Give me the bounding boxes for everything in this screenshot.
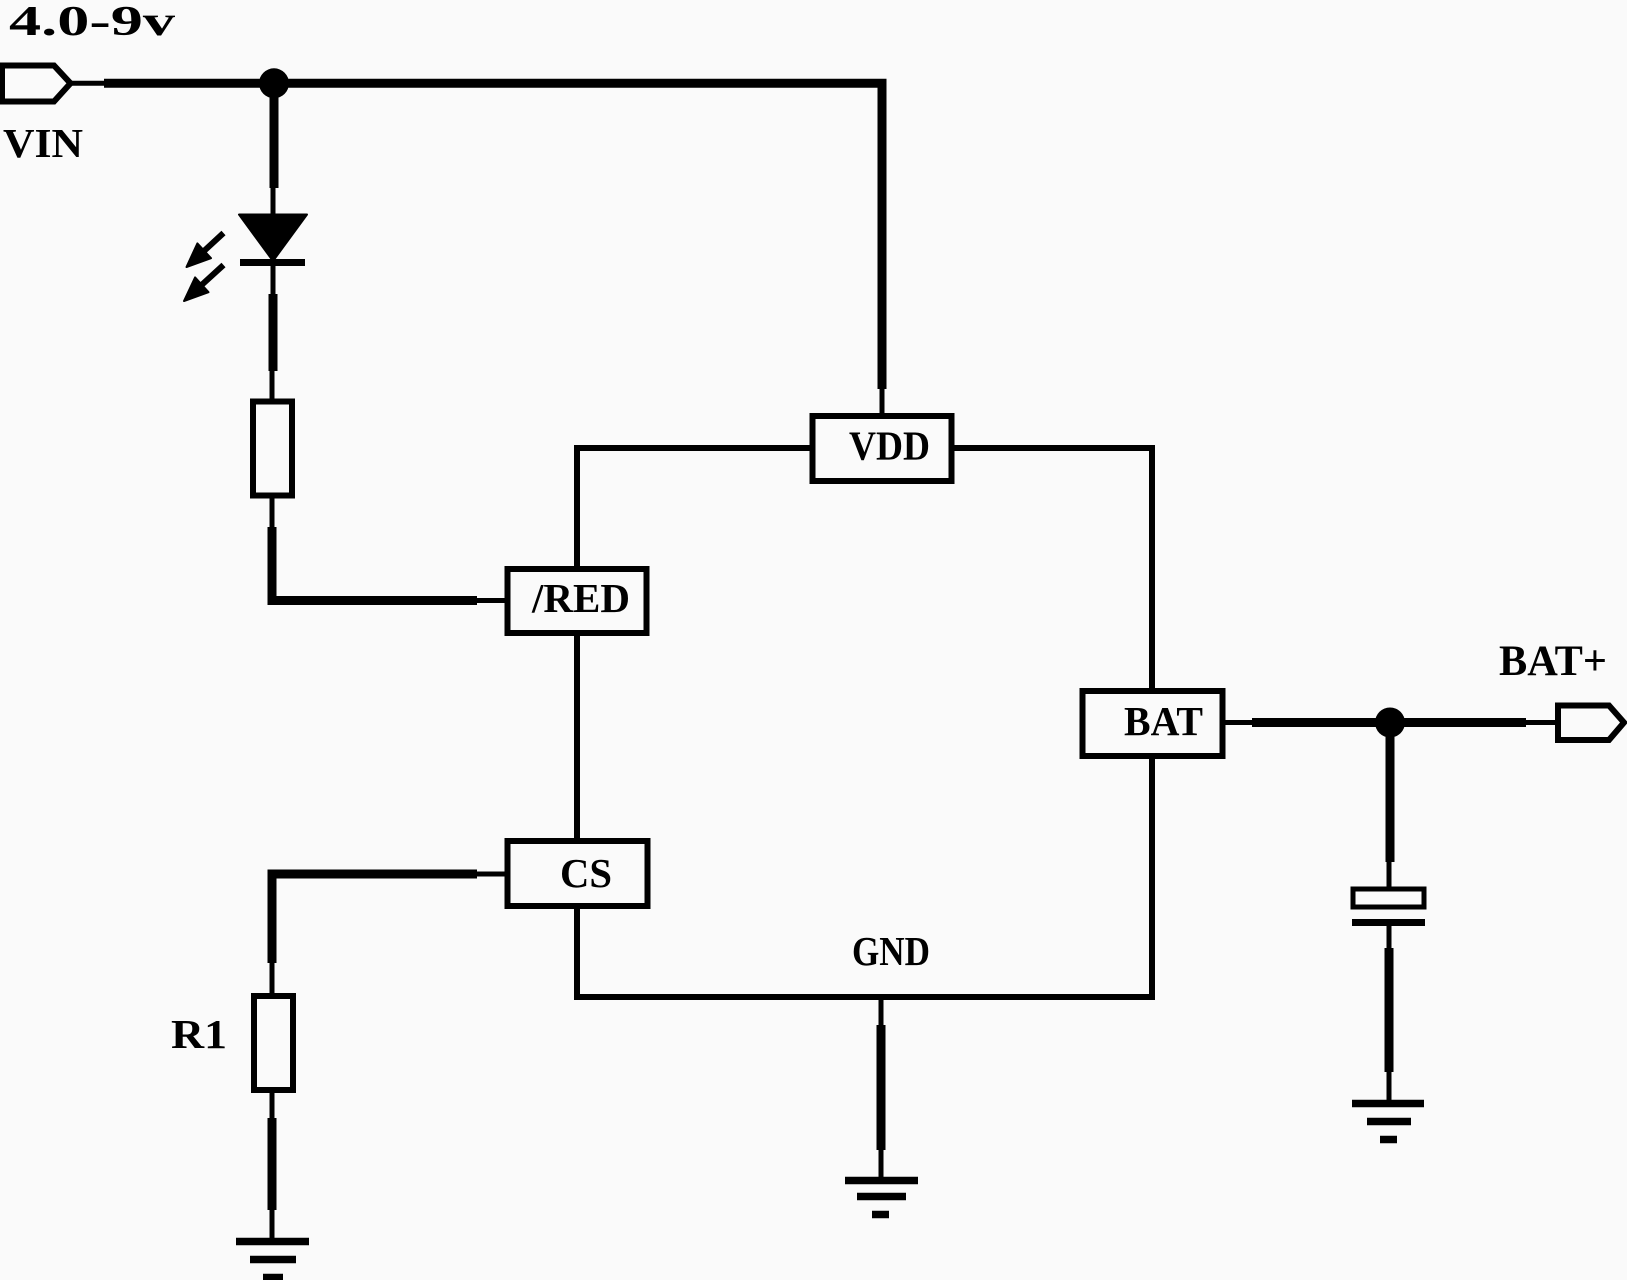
pin box BAT	[1083, 691, 1223, 756]
wire R1 to ground	[268, 1118, 277, 1210]
junction node at BAT net	[1375, 708, 1405, 738]
capacitor top pin stub	[1387, 862, 1392, 889]
ground symbol (GND pin)	[845, 1181, 918, 1215]
resistor R1 body	[254, 996, 293, 1090]
ground pin stub (GND net)	[879, 1150, 884, 1180]
ground symbol (R1)	[236, 1242, 309, 1278]
ground pin stub below R1	[270, 1210, 275, 1241]
R1 bottom pin stub	[270, 1088, 275, 1118]
LED D1 triangle	[239, 215, 307, 262]
wire junction down to capacitor	[1386, 723, 1395, 863]
ground symbol (capacitor)	[1352, 1104, 1424, 1140]
GND pin stub below IC	[879, 997, 884, 1025]
IC U1 body outline	[577, 448, 1152, 997]
wire GND to ground	[877, 1025, 886, 1150]
resistor top pin stub	[270, 371, 275, 403]
resistor bottom pin stub	[270, 494, 275, 527]
wire CS to R1	[272, 874, 477, 963]
capacitor C1 bottom plate	[1352, 919, 1425, 926]
pin stub into /RED box	[477, 598, 508, 603]
wire BAT to terminal	[1252, 718, 1526, 727]
LED anode pin stub	[271, 188, 276, 215]
wire VIN rail to VDD drop	[104, 83, 882, 389]
R1 top pin stub	[270, 963, 275, 997]
LED light arrow 2	[184, 265, 224, 301]
resistor (LED series) body	[253, 402, 292, 496]
svg-text:GND: GND	[852, 928, 930, 974]
pin stub out of CS box	[477, 872, 508, 877]
pin box /RED	[508, 569, 647, 633]
wire junction down to LED anode	[270, 83, 279, 188]
junction node at VIN rail	[259, 68, 289, 98]
wire capacitor to ground	[1385, 948, 1394, 1072]
svg-text:/RED: /RED	[531, 575, 630, 621]
LED D1 cathode bar	[240, 259, 305, 266]
pin stub into BAT+ terminal	[1526, 720, 1558, 725]
svg-text:CS: CS	[560, 850, 612, 896]
svg-text:VIN: VIN	[3, 120, 83, 166]
pin stub from VIN terminal	[71, 81, 105, 86]
pin stub out of BAT box	[1223, 720, 1253, 725]
wire resistor to /RED pin	[272, 527, 477, 601]
svg-text:VDD: VDD	[849, 423, 930, 469]
svg-text:R1: R1	[171, 1011, 227, 1057]
terminal VIN (input connector)	[2, 66, 71, 102]
pin box VDD	[813, 416, 952, 481]
wire LED to resistor	[269, 294, 278, 371]
ground pin stub below capacitor	[1387, 1072, 1392, 1100]
LED cathode pin stub	[271, 263, 276, 297]
terminal BAT+ (output connector)	[1558, 706, 1624, 741]
pin box CS	[508, 841, 648, 906]
svg-text:4.0-9v: 4.0-9v	[9, 0, 175, 45]
LED light arrow 1	[187, 233, 224, 267]
pin stub into VDD box	[880, 389, 885, 417]
capacitor C1 (polarized) top plate	[1353, 889, 1424, 907]
svg-text:BAT+: BAT+	[1499, 638, 1607, 685]
svg-text:BAT: BAT	[1124, 698, 1203, 744]
capacitor bottom pin stub	[1387, 926, 1392, 948]
